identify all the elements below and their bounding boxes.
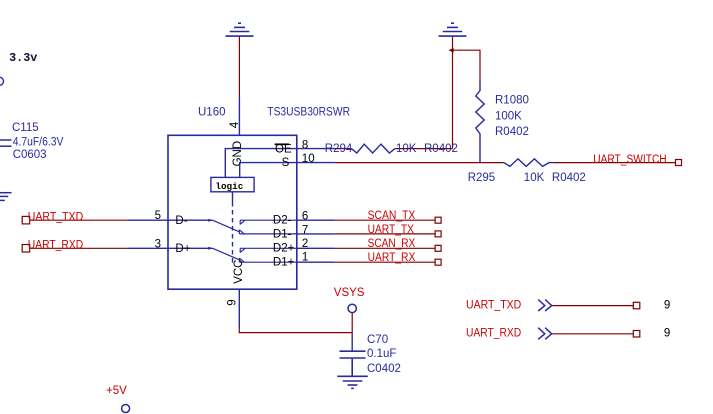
IC U160 body xyxy=(168,135,297,289)
svg-text:C0402: C0402 xyxy=(367,363,401,375)
port square RXD xyxy=(633,331,640,338)
wire SCAN_RX xyxy=(335,247,435,249)
svg-text:TS3USB30RSWR: TS3USB30RSWR xyxy=(267,107,350,119)
port SCAN_RX xyxy=(435,245,441,251)
contact D2- xyxy=(240,220,297,224)
svg-text:R294: R294 xyxy=(325,143,353,155)
wire UART_TXD xyxy=(30,219,128,221)
wire gnd1 to pin4 xyxy=(238,37,240,97)
svg-text:D1-: D1- xyxy=(273,228,292,240)
switch 1 blade xyxy=(213,220,240,232)
svg-text:R295: R295 xyxy=(468,172,496,184)
svg-text:R0402: R0402 xyxy=(552,172,586,184)
power symbol VSYS xyxy=(348,304,356,312)
svg-text:SCAN_RX: SCAN_RX xyxy=(368,238,416,250)
svg-text:100K: 100K xyxy=(495,110,522,122)
pin 6 stub xyxy=(297,219,335,221)
svg-text:10: 10 xyxy=(302,153,315,165)
wire UART_RXD xyxy=(30,247,128,249)
wire to C70 xyxy=(351,333,353,351)
switch 2 blade xyxy=(213,248,240,260)
svg-text:D-: D- xyxy=(175,215,187,227)
port UART_SWITCH xyxy=(676,160,682,166)
svg-text:UART_TX: UART_TX xyxy=(368,224,415,236)
port UART_RX xyxy=(435,259,441,265)
contact D2+ xyxy=(240,248,297,252)
svg-text:C70: C70 xyxy=(367,334,388,346)
pin 1 stub xyxy=(297,261,335,263)
svg-text:D1+: D1+ xyxy=(273,257,295,269)
pole arrow xyxy=(208,219,213,222)
wire branch to R1080 xyxy=(453,50,481,79)
capacitor C70 xyxy=(340,351,366,376)
wire pin9 to VSYS xyxy=(239,328,352,333)
wire OE net xyxy=(335,148,352,150)
OE internal wire xyxy=(225,149,296,178)
S internal wire xyxy=(240,163,297,178)
contact D1- xyxy=(239,230,296,234)
dashed control line xyxy=(232,202,234,266)
wire SCAN_TX xyxy=(335,219,435,221)
pole arrow xyxy=(208,247,213,250)
svg-text:4.7uF/6.3V: 4.7uF/6.3V xyxy=(13,136,64,148)
pin 8 stub xyxy=(297,148,335,150)
port UART_RXD xyxy=(22,245,30,253)
wire UART_TX xyxy=(335,233,435,235)
wire RXD xyxy=(552,333,634,335)
svg-text:S: S xyxy=(282,157,290,169)
pin 7 stub xyxy=(297,233,335,235)
svg-text:UART_TXD: UART_TXD xyxy=(28,211,83,223)
resistor R295 xyxy=(504,159,553,167)
svg-text:C0603: C0603 xyxy=(13,149,47,161)
svg-text:UART_RXD: UART_RXD xyxy=(466,328,521,340)
ground GND2 (top right) xyxy=(439,23,467,36)
capacitor C115 (cut off at left edge) xyxy=(0,140,12,146)
offpage chevron RXD xyxy=(538,328,552,340)
svg-text:D2+: D2+ xyxy=(273,243,295,255)
wire S net xyxy=(335,162,504,164)
wire below logic xyxy=(232,192,234,202)
pin 2 stub xyxy=(297,247,335,249)
wire VSYS down xyxy=(351,313,353,333)
svg-text:R0402: R0402 xyxy=(495,126,529,138)
wire R294 to gnd xyxy=(395,148,452,150)
svg-text:+5V: +5V xyxy=(106,385,127,397)
svg-text:UART_RX: UART_RX xyxy=(368,252,416,264)
ground (cut off at left edge) xyxy=(0,193,12,201)
svg-text:0.1uF: 0.1uF xyxy=(367,348,396,360)
port UART_TX xyxy=(435,231,441,237)
svg-text:D2-: D2- xyxy=(273,214,292,226)
pin 3 stub xyxy=(128,247,168,249)
port UART_TXD xyxy=(22,216,30,224)
pin 5 stub xyxy=(128,219,168,221)
svg-text:U160: U160 xyxy=(198,107,226,119)
svg-text:8: 8 xyxy=(302,139,308,151)
logic box xyxy=(211,177,254,191)
ground below C70 xyxy=(337,376,368,388)
resistor R294 xyxy=(351,144,395,153)
svg-text:UART_RXD: UART_RXD xyxy=(28,239,83,251)
svg-text:9: 9 xyxy=(664,328,670,340)
svg-text:R0402: R0402 xyxy=(424,143,458,155)
svg-text:UART_TXD: UART_TXD xyxy=(466,299,521,311)
svg-text:SCAN_TX: SCAN_TX xyxy=(368,210,416,222)
wire TXD xyxy=(552,305,634,307)
svg-text:C115: C115 xyxy=(12,122,39,134)
OE overline xyxy=(275,143,289,145)
svg-text:logic: logic xyxy=(215,181,243,192)
svg-text:3.3v: 3.3v xyxy=(9,51,37,65)
svg-text:10K: 10K xyxy=(524,172,545,184)
wire UART_RX xyxy=(335,261,435,263)
svg-text:VSYS: VSYS xyxy=(334,287,365,299)
svg-text:9: 9 xyxy=(226,299,238,305)
svg-text:UART_SWITCH: UART_SWITCH xyxy=(593,154,667,166)
power symbol +5V xyxy=(122,405,130,413)
port square TXD xyxy=(633,302,640,309)
port SCAN_TX xyxy=(435,217,441,223)
power symbol 3.3V (cut off at left edge) xyxy=(0,77,4,85)
svg-text:D+: D+ xyxy=(175,243,190,255)
resistor R1080 xyxy=(476,79,484,163)
svg-text:9: 9 xyxy=(664,300,670,312)
svg-text:10K: 10K xyxy=(396,143,417,155)
wire gnd2 down to R294 net xyxy=(452,37,454,149)
wire to UART_SWITCH xyxy=(553,162,675,164)
pin 10 stub xyxy=(297,162,335,164)
ground GND1 (above pin 4) xyxy=(226,23,254,36)
switch 2 pole wire xyxy=(168,247,213,249)
pin 4 stub xyxy=(238,97,240,135)
pin 9 stub xyxy=(238,289,240,328)
svg-text:VCC: VCC xyxy=(233,260,245,284)
switch 1 pole wire xyxy=(168,219,213,221)
svg-text:4: 4 xyxy=(229,121,241,128)
junction xyxy=(449,48,454,53)
contact D1+ xyxy=(239,258,296,262)
svg-text:R1080: R1080 xyxy=(495,95,529,107)
offpage chevron TXD xyxy=(538,300,552,312)
